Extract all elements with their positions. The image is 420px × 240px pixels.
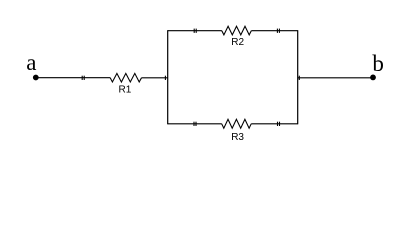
svg-text:R2: R2 (231, 37, 244, 48)
junction tick pair bottom-right (278, 122, 280, 126)
right vertical wire (297, 30, 299, 124)
junction tick pair on wire a-R1 (82, 76, 84, 80)
junction tick pair bottom-left (194, 122, 196, 126)
resistor R2 (222, 26, 252, 48)
resistor R3 (222, 119, 252, 143)
top wire left segment (168, 30, 222, 32)
svg-text:a: a (26, 50, 36, 75)
node b (370, 51, 384, 81)
wire a to R1 (36, 77, 111, 79)
top wire right segment (251, 30, 297, 32)
left vertical wire (167, 30, 169, 124)
junction tick pair top-right (277, 29, 279, 33)
junction tick pair top-left (194, 29, 196, 33)
wire right junction to b (298, 77, 373, 79)
node a (26, 50, 39, 80)
bottom wire left segment (168, 123, 222, 125)
wire-end tick at right junction (298, 76, 300, 80)
resistor R1 (110, 73, 141, 95)
svg-text:R1: R1 (119, 85, 132, 96)
wire R1 to left junction (142, 77, 168, 79)
svg-text:b: b (372, 51, 384, 76)
wire-end tick at left junction (164, 76, 166, 80)
bottom wire right segment (251, 123, 298, 125)
svg-text:R3: R3 (231, 132, 244, 143)
